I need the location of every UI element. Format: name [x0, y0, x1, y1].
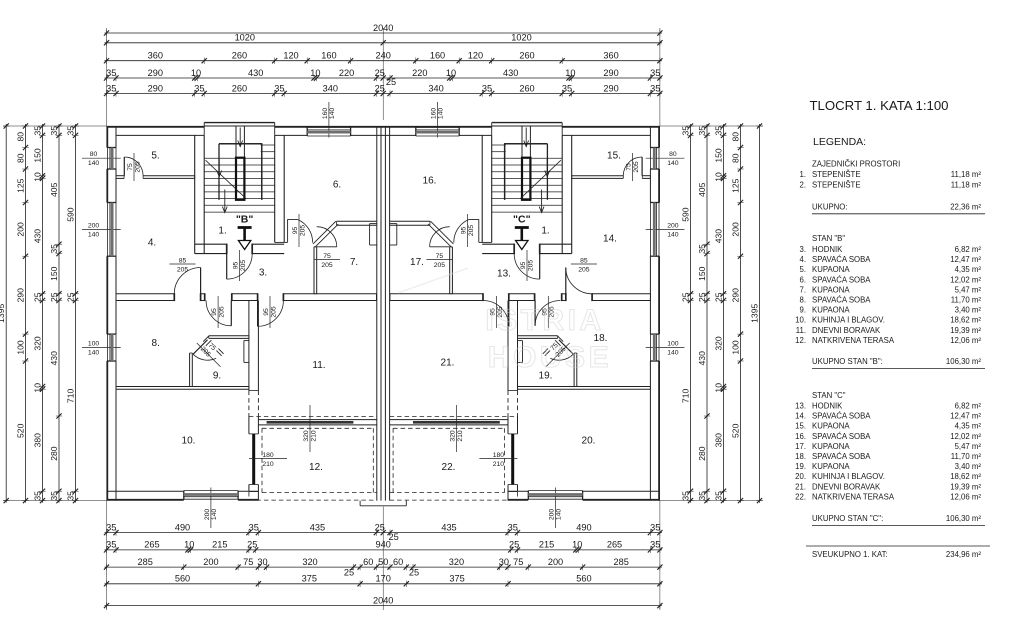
svg-text:710: 710: [65, 389, 75, 404]
svg-text:320: 320: [303, 430, 310, 442]
svg-text:180: 180: [262, 452, 274, 459]
svg-text:3.: 3.: [799, 245, 806, 254]
svg-text:6.: 6.: [333, 180, 341, 191]
svg-text:35: 35: [697, 491, 707, 501]
door 95/205 room 8: [206, 296, 231, 328]
wall room7 left C: [450, 247, 453, 294]
window label 180/210 terrace C: [479, 452, 517, 468]
svg-text:3.: 3.: [259, 268, 267, 279]
svg-text:NATKRIVENA TERASA: NATKRIVENA TERASA: [812, 492, 895, 501]
stairs B treads and rails: [204, 126, 275, 212]
svg-text:200: 200: [549, 509, 556, 521]
section arrow C: [513, 214, 531, 250]
svg-text:220: 220: [412, 68, 427, 78]
svg-text:ISTRIA: ISTRIA: [485, 304, 604, 337]
svg-text:NATKRIVENA TERASA: NATKRIVENA TERASA: [812, 336, 895, 345]
svg-text:75: 75: [127, 163, 134, 171]
svg-text:25: 25: [32, 292, 42, 302]
svg-text:320: 320: [32, 336, 42, 351]
svg-text:11.: 11.: [796, 326, 806, 335]
door 85/205 room 4: [170, 257, 201, 293]
svg-text:20.: 20.: [582, 436, 596, 447]
svg-text:95: 95: [520, 262, 527, 270]
svg-text:375: 375: [302, 574, 317, 584]
svg-text:85: 85: [580, 257, 588, 264]
svg-text:5,47 m²: 5,47 m²: [955, 285, 982, 294]
svg-text:35: 35: [32, 491, 42, 501]
svg-text:10: 10: [32, 172, 42, 182]
svg-text:20.: 20.: [795, 472, 806, 481]
svg-text:75: 75: [243, 557, 253, 567]
wall room8-10 partition B: [116, 387, 249, 390]
svg-text:205: 205: [633, 161, 640, 173]
svg-text:18.: 18.: [795, 452, 806, 461]
wall room9 bathroom C: [518, 336, 577, 387]
witness line bottom-right: [659, 501, 661, 610]
svg-text:430: 430: [503, 68, 518, 78]
svg-text:205: 205: [468, 225, 475, 237]
svg-text:125: 125: [15, 178, 25, 193]
svg-text:12.: 12.: [309, 462, 323, 473]
window label 80/140 right: [646, 151, 685, 167]
svg-text:25: 25: [247, 540, 257, 550]
svg-text:150: 150: [713, 148, 723, 163]
svg-text:KUPAONA: KUPAONA: [812, 285, 850, 294]
stairwell B walls: [195, 135, 288, 254]
svg-text:430: 430: [248, 68, 263, 78]
svg-text:140: 140: [329, 108, 336, 120]
window 160/140 top wall B: [307, 127, 350, 136]
svg-text:430: 430: [32, 229, 42, 244]
svg-text:80: 80: [15, 153, 25, 163]
svg-text:10.: 10.: [182, 436, 196, 447]
svg-text:150: 150: [49, 266, 59, 281]
svg-text:18,62 m²: 18,62 m²: [950, 316, 981, 325]
wall room6 bottom C: [390, 221, 430, 225]
stair bay top wall: [204, 123, 275, 136]
svg-text:205: 205: [219, 306, 226, 318]
svg-text:140: 140: [88, 231, 100, 238]
svg-text:430: 430: [49, 351, 59, 366]
svg-text:12,06 m²: 12,06 m²: [950, 336, 981, 345]
witness line top-left: [106, 28, 108, 126]
svg-text:35: 35: [713, 126, 723, 136]
svg-text:35: 35: [680, 126, 690, 136]
svg-text:35: 35: [650, 68, 660, 78]
svg-text:285: 285: [138, 557, 153, 567]
svg-text:290: 290: [603, 68, 618, 78]
svg-text:160: 160: [321, 51, 336, 61]
terrace room12 walls B: [249, 416, 377, 500]
svg-text:590: 590: [680, 207, 690, 222]
svg-text:4,35 m²: 4,35 m²: [955, 422, 982, 431]
svg-text:KUPAONA: KUPAONA: [812, 306, 850, 315]
wall corridor middle C: [390, 294, 650, 301]
svg-text:210: 210: [310, 430, 317, 442]
door 95/205 stair C: [514, 250, 540, 281]
svg-text:10: 10: [446, 68, 456, 78]
svg-text:140: 140: [438, 108, 445, 120]
svg-text:12,06 m²: 12,06 m²: [950, 492, 981, 501]
svg-text:140: 140: [667, 350, 679, 357]
svg-text:265: 265: [607, 540, 622, 550]
svg-text:210: 210: [493, 461, 505, 468]
dimension column right total 1395: [749, 123, 762, 503]
svg-text:100: 100: [730, 340, 740, 355]
svg-text:106,30 m²: 106,30 m²: [946, 357, 982, 366]
svg-text:340: 340: [323, 83, 338, 93]
svg-text:UKUPNO STAN "B":: UKUPNO STAN "B":: [812, 357, 883, 366]
svg-text:35: 35: [562, 83, 572, 93]
svg-text:435: 435: [441, 522, 456, 532]
svg-text:200: 200: [548, 557, 563, 567]
door 85/205 room 14: [566, 257, 597, 293]
svg-text:STEPENIŠTE: STEPENIŠTE: [812, 181, 861, 190]
svg-text:320: 320: [449, 557, 464, 567]
window label 160/140 top: [431, 102, 445, 138]
svg-text:14.: 14.: [795, 412, 806, 421]
svg-text:290: 290: [730, 288, 740, 303]
svg-text:"C": "C": [513, 214, 531, 226]
svg-text:590: 590: [65, 207, 75, 222]
door label 320/210 terrace C: [449, 405, 463, 452]
svg-text:200: 200: [203, 557, 218, 567]
svg-text:205: 205: [321, 262, 333, 269]
outer wall left: [107, 126, 116, 501]
svg-text:200: 200: [204, 509, 211, 521]
wall room5 partition C: [572, 176, 651, 179]
svg-text:11,70 m²: 11,70 m²: [951, 452, 982, 461]
svg-text:30: 30: [257, 557, 267, 567]
svg-text:35: 35: [274, 83, 284, 93]
svg-text:560: 560: [175, 574, 190, 584]
dimension row bottom A: [104, 522, 663, 541]
svg-text:6,82 m²: 6,82 m²: [955, 245, 982, 254]
svg-text:100: 100: [15, 340, 25, 355]
wall room6 diagonal C: [428, 221, 453, 247]
svg-text:150: 150: [32, 148, 42, 163]
svg-text:35: 35: [106, 68, 116, 78]
svg-text:10.: 10.: [795, 316, 806, 325]
svg-text:205: 205: [134, 161, 141, 173]
svg-text:10: 10: [572, 540, 582, 550]
svg-text:234,96 m²: 234,96 m²: [946, 550, 982, 559]
svg-text:80: 80: [669, 151, 677, 158]
svg-text:DNEVNI BORAVAK: DNEVNI BORAVAK: [812, 482, 881, 491]
witness line right-top: [660, 125, 763, 127]
svg-text:290: 290: [148, 68, 163, 78]
svg-text:290: 290: [603, 83, 618, 93]
window label 180/210 terrace B: [249, 452, 287, 468]
svg-text:22.: 22.: [795, 492, 806, 501]
svg-text:UKUPNO:: UKUPNO:: [812, 203, 848, 212]
legend panel: [795, 98, 990, 559]
dimension column right C: [713, 123, 726, 503]
svg-text:140: 140: [88, 160, 100, 167]
svg-text:260: 260: [232, 51, 247, 61]
shaft niche room9 C: [518, 341, 523, 363]
svg-text:285: 285: [614, 557, 629, 567]
svg-text:35: 35: [194, 83, 204, 93]
svg-text:1020: 1020: [511, 33, 531, 43]
svg-text:35: 35: [106, 540, 116, 550]
svg-text:35: 35: [713, 491, 723, 501]
wall corridor middle B: [116, 294, 376, 301]
svg-text:260: 260: [519, 51, 534, 61]
svg-text:490: 490: [576, 522, 591, 532]
svg-text:"B": "B": [236, 214, 254, 226]
svg-text:10: 10: [310, 68, 320, 78]
svg-text:ZAJEDNIČKI PROSTORI: ZAJEDNIČKI PROSTORI: [812, 160, 900, 169]
svg-text:12,02 m²: 12,02 m²: [950, 275, 981, 284]
svg-text:8.: 8.: [799, 296, 806, 305]
svg-text:17.: 17.: [795, 442, 806, 451]
window 80/140 left wall: [107, 148, 116, 170]
svg-text:60: 60: [363, 557, 373, 567]
svg-text:7.: 7.: [799, 285, 806, 294]
svg-text:SVEUKUPNO 1. KAT:: SVEUKUPNO 1. KAT:: [812, 550, 888, 559]
dimension row top detail A: [104, 68, 663, 87]
window 200/140 bottom wall B: [184, 491, 238, 500]
window label 200/140 right: [646, 222, 685, 238]
wall room11 left B: [249, 301, 259, 417]
svg-text:380: 380: [32, 433, 42, 448]
svg-text:35: 35: [65, 491, 75, 501]
svg-text:SPAVAĆA SOBA: SPAVAĆA SOBA: [812, 275, 871, 284]
svg-text:14.: 14.: [603, 234, 617, 245]
window 200/140 bottom wall C: [528, 491, 582, 500]
wall room8-10 partition C: [518, 387, 651, 390]
outer wall right: [650, 126, 659, 501]
svg-text:95: 95: [211, 308, 218, 316]
wall room6 diagonal B: [313, 221, 338, 247]
svg-text:35: 35: [49, 491, 59, 501]
center party wall: [377, 126, 390, 501]
svg-text:35: 35: [680, 491, 690, 501]
door 95/205 room 16: [454, 214, 479, 247]
svg-text:120: 120: [468, 51, 483, 61]
svg-text:18,62 m²: 18,62 m²: [950, 472, 981, 481]
svg-text:140: 140: [88, 350, 100, 357]
svg-text:19.: 19.: [795, 462, 806, 471]
svg-text:25: 25: [65, 292, 75, 302]
wall room7 left B: [314, 247, 317, 294]
witness line left-top: [3, 125, 107, 127]
svg-text:25: 25: [697, 292, 707, 302]
svg-text:11,18 m²: 11,18 m²: [951, 181, 982, 190]
svg-text:60: 60: [393, 557, 403, 567]
dimension column left total 1395: [0, 123, 9, 503]
svg-text:10: 10: [184, 540, 194, 550]
dimension row bottom B: [104, 540, 663, 553]
svg-text:160: 160: [431, 108, 438, 120]
svg-text:35: 35: [650, 540, 660, 550]
svg-text:21.: 21.: [795, 482, 806, 491]
svg-text:SPAVAĆA SOBA: SPAVAĆA SOBA: [812, 432, 871, 441]
svg-text:490: 490: [175, 522, 190, 532]
door 95/205 room 18: [535, 296, 560, 328]
wall room11 left C: [508, 301, 518, 417]
svg-text:85: 85: [179, 257, 187, 264]
svg-text:19,39 m²: 19,39 m²: [950, 482, 981, 491]
svg-text:6,82 m²: 6,82 m²: [955, 402, 982, 411]
svg-text:10: 10: [32, 383, 42, 393]
svg-text:4.: 4.: [799, 255, 806, 264]
svg-text:205: 205: [299, 225, 306, 237]
svg-text:160: 160: [430, 51, 445, 61]
outer wall top: [107, 127, 660, 136]
svg-text:280: 280: [49, 446, 59, 461]
svg-text:205: 205: [270, 306, 277, 318]
svg-text:95: 95: [232, 262, 239, 270]
svg-text:HOUSE: HOUSE: [488, 341, 612, 374]
witness line left-bottom: [3, 500, 107, 502]
svg-text:520: 520: [15, 423, 25, 438]
svg-text:140: 140: [211, 509, 218, 521]
terrace room12 walls C: [390, 416, 518, 500]
svg-text:405: 405: [697, 182, 707, 197]
svg-text:80: 80: [90, 151, 98, 158]
dimension column left D: [49, 123, 62, 503]
svg-text:160: 160: [322, 108, 329, 120]
dimension row top 1020+1020: [104, 33, 663, 46]
svg-text:360: 360: [148, 51, 163, 61]
svg-text:22,36 m²: 22,36 m²: [950, 203, 981, 212]
svg-text:320: 320: [449, 430, 456, 442]
svg-text:KUPAONA: KUPAONA: [812, 442, 850, 451]
dimension row top thirds: [104, 51, 663, 64]
svg-text:150: 150: [697, 266, 707, 281]
svg-text:205: 205: [177, 266, 189, 273]
svg-text:30: 30: [499, 557, 509, 567]
svg-text:200: 200: [88, 222, 100, 229]
svg-text:16.: 16.: [795, 432, 806, 441]
svg-text:9.: 9.: [799, 306, 806, 315]
svg-text:STAN "C": STAN "C": [812, 391, 846, 400]
svg-text:25: 25: [713, 292, 723, 302]
shaft niche room9 B: [244, 341, 249, 363]
svg-text:SPAVAĆA SOBA: SPAVAĆA SOBA: [812, 452, 871, 461]
witness line right-bottom: [660, 500, 763, 502]
svg-text:8.: 8.: [152, 338, 160, 349]
svg-text:25: 25: [386, 77, 396, 87]
porch stub bottom center: [360, 501, 406, 506]
svg-text:435: 435: [310, 522, 325, 532]
witness line bottom-center: [382, 507, 384, 610]
svg-text:200: 200: [15, 222, 25, 237]
dimension column right D: [697, 123, 710, 503]
svg-text:KUPAONA: KUPAONA: [812, 265, 850, 274]
svg-text:13.: 13.: [497, 269, 511, 280]
svg-text:6.: 6.: [799, 275, 806, 284]
svg-text:15.: 15.: [795, 422, 806, 431]
dimension column left C: [32, 123, 45, 503]
dimension row bottom D: [104, 574, 663, 587]
svg-text:80: 80: [730, 153, 740, 163]
svg-text:25: 25: [344, 568, 354, 578]
svg-text:10: 10: [191, 68, 201, 78]
door 75/205 room 7: [314, 227, 340, 269]
dimension column left E: [65, 123, 78, 503]
section arrow B: [236, 214, 254, 250]
svg-text:95: 95: [460, 227, 467, 235]
door 95/205 stair B: [227, 250, 253, 281]
svg-text:5.: 5.: [799, 265, 806, 274]
svg-text:200: 200: [667, 222, 679, 229]
svg-text:80: 80: [15, 132, 25, 142]
door 75/205 room 15: [623, 153, 642, 181]
svg-text:710: 710: [680, 389, 690, 404]
svg-text:35: 35: [32, 126, 42, 136]
svg-text:290: 290: [15, 288, 25, 303]
window label 100/140 right: [646, 341, 685, 357]
svg-text:STAN "B": STAN "B": [812, 234, 845, 243]
svg-text:10: 10: [565, 68, 575, 78]
svg-text:210: 210: [262, 461, 274, 468]
svg-text:140: 140: [556, 509, 563, 521]
svg-text:35: 35: [697, 244, 707, 254]
dimension row bottom total 2040: [104, 595, 663, 608]
dimension row top total 2040: [104, 23, 663, 36]
svg-text:320: 320: [713, 336, 723, 351]
window 160/140 top wall C: [416, 127, 459, 136]
svg-text:75: 75: [323, 253, 331, 260]
svg-text:DNEVNI BORAVAK: DNEVNI BORAVAK: [812, 326, 881, 335]
svg-text:KUPAONA: KUPAONA: [812, 462, 850, 471]
window 100/140 right wall: [650, 334, 659, 361]
door 95/205 room 6: [288, 214, 313, 247]
svg-text:25: 25: [409, 568, 419, 578]
svg-text:380: 380: [713, 433, 723, 448]
svg-text:205: 205: [434, 262, 446, 269]
svg-text:10: 10: [713, 172, 723, 182]
svg-text:KUPAONA: KUPAONA: [812, 422, 850, 431]
svg-text:290: 290: [148, 83, 163, 93]
witness line top-right: [659, 28, 661, 126]
svg-text:13.: 13.: [795, 402, 806, 411]
wall corridor middle jamb caps C: [483, 293, 592, 301]
window label 100/140 left: [82, 341, 121, 357]
svg-text:1020: 1020: [235, 33, 255, 43]
window label 160/140 top: [322, 102, 336, 138]
svg-text:4,35 m²: 4,35 m²: [955, 265, 982, 274]
window label 200/140 bottom: [549, 488, 563, 529]
svg-text:100: 100: [667, 341, 679, 348]
svg-text:SPAVAĆA SOBA: SPAVAĆA SOBA: [812, 412, 871, 421]
svg-text:120: 120: [283, 51, 298, 61]
svg-text:KUHINJA I BLAGOV.: KUHINJA I BLAGOV.: [812, 472, 885, 481]
window 200/140 left wall: [107, 203, 116, 257]
door 75/205 room 5: [124, 153, 143, 181]
svg-text:100: 100: [88, 341, 100, 348]
svg-text:11,70 m²: 11,70 m²: [951, 296, 982, 305]
window 200/140 right wall: [650, 203, 659, 257]
svg-text:340: 340: [428, 83, 443, 93]
svg-text:7.: 7.: [350, 257, 358, 268]
svg-text:140: 140: [667, 231, 679, 238]
svg-text:280: 280: [697, 446, 707, 461]
stair bay top wall: [492, 123, 563, 136]
svg-text:11,18 m²: 11,18 m²: [951, 170, 982, 179]
svg-text:12,02 m²: 12,02 m²: [950, 432, 981, 441]
watermark ISTRIA HOUSE: [398, 268, 612, 374]
svg-text:430: 430: [713, 229, 723, 244]
svg-text:220: 220: [339, 68, 354, 78]
svg-text:35: 35: [249, 522, 259, 532]
svg-text:11.: 11.: [312, 360, 325, 371]
dimension column right E: [680, 123, 693, 503]
svg-text:205: 205: [578, 266, 590, 273]
